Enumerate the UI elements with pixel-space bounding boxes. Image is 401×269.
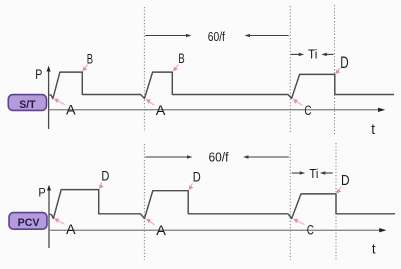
svg-text:D: D (101, 169, 109, 184)
dotted line 2 (S/T breath 3 trigger) (289, 6, 291, 132)
svg-text:D: D (193, 170, 201, 185)
svg-text:D: D (340, 54, 348, 72)
dotted line 1 (PCV cycle start, breath 2 trigger) (143, 144, 145, 260)
pink arrow to C breath3 trigger dip (293, 219, 304, 225)
P axis (S/T) (47, 66, 51, 129)
svg-text:B: B (87, 51, 93, 66)
dotted line 3 (S/T end of Ti) (334, 5, 336, 134)
svg-text:60/f: 60/f (208, 29, 225, 44)
svg-text:A: A (156, 223, 166, 238)
pink arrow to B breath1 corner (82, 65, 87, 72)
t axis (PCV) (49, 228, 386, 232)
60/f dimension arrow left (S/T) (145, 34, 191, 38)
pink arrow to A breath2 trigger dip (146, 219, 155, 225)
dotted line 2 (PCV breath 3 trigger) (289, 144, 291, 260)
svg-text:P: P (35, 66, 42, 82)
pink arrow to A breath2 trigger dip (146, 99, 154, 105)
pink arrow to D breath3 cycle-off corner (335, 68, 340, 75)
pink arrow to A breath1 trigger dip (54, 99, 65, 105)
svg-text:t: t (371, 122, 375, 138)
60/f dimension arrow right (PCV) (243, 155, 289, 159)
60/f dimension arrow left (PCV) (145, 155, 192, 159)
svg-text:B: B (178, 51, 184, 66)
svg-text:D: D (341, 172, 350, 189)
Ti dimension arrow right (S/T) (321, 53, 333, 57)
PCV mode box (9, 213, 47, 230)
svg-text:A: A (66, 103, 76, 118)
Ti dimension arrow left (S/T) (291, 53, 304, 57)
svg-text:Ti: Ti (308, 48, 317, 62)
svg-text:S/T: S/T (19, 99, 36, 111)
P axis (PCV) (47, 185, 51, 248)
dotted line 1 (S/T cycle start, breath 2 trigger) (143, 7, 145, 132)
pink arrow to B breath2 corner (173, 65, 178, 72)
pressure waveform (PCV) (50, 190, 395, 219)
pink arrow to D breath2 corner (189, 183, 194, 190)
Ti dimension arrow left (PCV) (292, 171, 305, 175)
svg-text:C: C (304, 103, 311, 118)
pink arrow to D breath1 corner (99, 182, 104, 189)
svg-text:P: P (38, 185, 45, 199)
svg-text:PCV: PCV (18, 217, 40, 229)
pink arrow to C breath3 trigger dip (293, 99, 303, 105)
svg-text:A: A (66, 222, 76, 237)
Ti dimension arrow right (PCV) (320, 171, 333, 175)
svg-text:60/f: 60/f (209, 150, 229, 165)
pressure waveform (S/T) (49, 72, 394, 98)
svg-text:t: t (372, 240, 376, 256)
dotted line 3 (PCV end of Ti) (335, 143, 337, 261)
svg-text:C: C (307, 223, 314, 238)
svg-text:Ti: Ti (309, 167, 318, 181)
pink arrow to A breath1 trigger dip (54, 218, 64, 224)
S/T mode box (8, 95, 46, 111)
svg-text:A: A (156, 103, 166, 118)
t axis (S/T) (49, 108, 386, 112)
pink arrow to D breath3 cycle-off corner (336, 187, 341, 194)
60/f dimension arrow right (S/T) (245, 34, 289, 38)
